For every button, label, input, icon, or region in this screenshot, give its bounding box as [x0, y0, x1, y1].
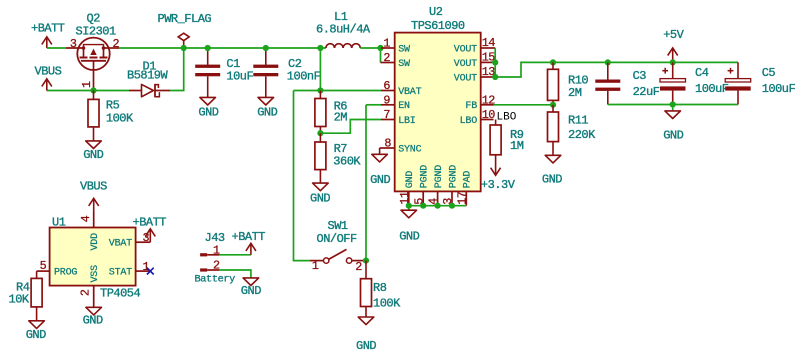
- svg-text:GND: GND: [310, 191, 330, 205]
- svg-text:+5V: +5V: [663, 28, 684, 42]
- svg-text:10uF: 10uF: [226, 70, 253, 84]
- svg-text:PGND: PGND: [434, 165, 445, 188]
- svg-text:14: 14: [482, 36, 496, 50]
- svg-text:C4: C4: [695, 66, 709, 80]
- ground below C1: [200, 97, 216, 105]
- no-connect X on STAT: [147, 268, 154, 275]
- svg-text:2M: 2M: [568, 86, 582, 100]
- junction C2 top: [263, 45, 269, 51]
- svg-text:8: 8: [384, 136, 391, 150]
- svg-text:C3: C3: [633, 69, 647, 83]
- wire +BATT to Q2 pin3: [47, 47, 66, 49]
- power flag PWR_FLAG: [158, 12, 212, 48]
- svg-text:360K: 360K: [333, 155, 361, 169]
- svg-text:PGND: PGND: [420, 165, 431, 188]
- svg-text:LBO: LBO: [460, 116, 478, 127]
- svg-text:2: 2: [355, 260, 362, 274]
- wire U2 pin14 down to pin13: [494, 48, 496, 77]
- svg-text:100K: 100K: [106, 112, 134, 126]
- ground below U2 pin11: [408, 206, 410, 211]
- capacitor C4 100uF (polarized): [660, 62, 729, 104]
- ground below R4: [29, 321, 45, 329]
- power symbol VBUS (left): [46, 79, 48, 91]
- svg-text:1: 1: [312, 259, 319, 273]
- junction L1 right / SW pins: [377, 45, 383, 51]
- ground below R7: [313, 183, 329, 191]
- svg-text:U1: U1: [52, 215, 66, 229]
- svg-text:R5: R5: [106, 98, 120, 112]
- svg-text:GND: GND: [663, 129, 683, 143]
- svg-text:FB: FB: [465, 101, 477, 112]
- svg-text:GND: GND: [370, 173, 390, 187]
- svg-text:STAT: STAT: [109, 268, 132, 279]
- junction U2 pin4: [435, 203, 441, 209]
- svg-text:C5: C5: [762, 66, 776, 80]
- U2 pin 11 GND: [408, 191, 410, 205]
- U1 pin 3 VBAT / power +BATT: [136, 241, 151, 243]
- wire drop to U2 pin2: [380, 48, 382, 63]
- U2 pin 6 VBAT: [381, 90, 395, 92]
- resistor R6 2M: [315, 91, 347, 134]
- svg-text:Q2: Q2: [87, 12, 101, 26]
- svg-text:EN: EN: [398, 101, 410, 112]
- svg-text:LBO: LBO: [497, 112, 517, 124]
- power symbol +3.3V (down): [495, 155, 497, 176]
- U2 pin 10 LBO: [481, 119, 494, 121]
- resistor R7 360K: [315, 133, 362, 183]
- svg-text:7: 7: [383, 108, 390, 122]
- ground below U2 pin8: [372, 154, 388, 162]
- svg-text:B5819W: B5819W: [127, 68, 169, 82]
- svg-text:100uF: 100uF: [762, 82, 796, 96]
- U2 pin 5 PGND: [422, 191, 424, 205]
- svg-text:ON/OFF: ON/OFF: [317, 232, 358, 246]
- power symbol +BATT (top left): [46, 37, 48, 48]
- svg-text:LBI: LBI: [398, 116, 415, 127]
- U2 pin 3 PGND: [451, 191, 453, 205]
- svg-text:9: 9: [383, 93, 390, 107]
- svg-text:R8: R8: [373, 281, 387, 295]
- svg-text:5: 5: [40, 259, 47, 273]
- svg-text:PGND: PGND: [448, 165, 459, 188]
- svg-text:17: 17: [455, 191, 469, 205]
- wire VBAT drop from top rail: [319, 48, 321, 91]
- svg-text:SW1: SW1: [328, 219, 348, 233]
- ground below R8: [358, 317, 374, 325]
- svg-text:GND: GND: [542, 173, 562, 187]
- wire VBUS rail left: [47, 90, 129, 92]
- svg-text:3: 3: [70, 37, 77, 51]
- resistor R4 10K: [9, 278, 43, 320]
- svg-text:1M: 1M: [510, 139, 524, 153]
- svg-text:GND: GND: [198, 105, 218, 119]
- U2 pin 13 VOUT: [481, 76, 496, 78]
- svg-text:+BATT: +BATT: [31, 22, 65, 36]
- svg-text:GND: GND: [399, 229, 419, 243]
- junction U2 pin15: [492, 59, 498, 65]
- capacitor C3 22uF: [595, 62, 659, 104]
- resistor R9 1M: [490, 120, 524, 155]
- U2 pin 14 VOUT: [481, 47, 496, 49]
- svg-text:3: 3: [143, 231, 150, 245]
- U2 pin 7 LBI: [381, 119, 395, 121]
- svg-text:100nF: 100nF: [287, 70, 321, 84]
- svg-text:22uF: 22uF: [633, 85, 660, 99]
- capacitor C1 10uF: [195, 48, 253, 97]
- svg-text:SW: SW: [398, 44, 410, 55]
- svg-text:GND: GND: [241, 284, 261, 298]
- wire VOUT jog to +5V rail: [495, 62, 547, 77]
- svg-text:GND: GND: [83, 313, 103, 327]
- resistor R10 2M: [548, 62, 589, 104]
- svg-text:2: 2: [113, 37, 120, 51]
- junction C3 top: [605, 59, 611, 65]
- svg-text:2: 2: [78, 289, 92, 296]
- junction U2 pin11: [406, 203, 412, 209]
- power symbol +5V: [672, 48, 674, 63]
- wire EN to switch: [365, 105, 367, 261]
- svg-text:SYNC: SYNC: [398, 144, 421, 155]
- svg-text:12: 12: [482, 93, 496, 107]
- junction R10 top: [550, 59, 556, 65]
- svg-text:TPS61090: TPS61090: [411, 19, 465, 33]
- svg-text:1: 1: [143, 260, 150, 274]
- svg-text:GND: GND: [257, 105, 277, 119]
- svg-text:6: 6: [383, 79, 390, 93]
- U2 pin 8 SYNC: [380, 147, 395, 149]
- ground below C4: [672, 105, 674, 111]
- svg-text:1: 1: [213, 243, 220, 257]
- svg-text:VOUT: VOUT: [454, 59, 477, 70]
- svg-text:10: 10: [482, 108, 496, 122]
- U1 pin 2 VSS: [93, 286, 95, 308]
- wire U2 pin8 to ground: [379, 148, 381, 154]
- svg-text:SW: SW: [398, 59, 410, 70]
- svg-text:GND: GND: [83, 148, 103, 162]
- resistor R11 220K: [548, 105, 597, 156]
- svg-text:VOUT: VOUT: [454, 44, 477, 55]
- svg-text:VBAT: VBAT: [109, 239, 132, 250]
- svg-text:10K: 10K: [9, 293, 30, 307]
- junction cap ground bus: [670, 101, 676, 107]
- inductor L1 6.8uH/4A: [316, 10, 371, 48]
- ground below U1 pin2: [86, 307, 102, 315]
- resistor R5 100K: [88, 91, 134, 141]
- wire L1 to U2 pin1: [360, 47, 380, 49]
- svg-text:VSS: VSS: [90, 265, 101, 283]
- svg-text:2M: 2M: [334, 110, 348, 124]
- junction FB divider: [550, 102, 556, 108]
- U2 pin 2 SW: [381, 62, 395, 64]
- U2 pin 1 SW: [381, 47, 395, 49]
- capacitor C2 100nF: [253, 48, 320, 97]
- diode D1 B5819W (Schottky): [127, 60, 170, 98]
- junction L1 left / VBAT drop: [317, 45, 323, 51]
- svg-text:100K: 100K: [373, 296, 401, 310]
- resistor R8 100K: [361, 261, 402, 317]
- svg-text:R11: R11: [568, 113, 588, 127]
- ground below R5: [86, 141, 102, 149]
- U2 pin 9 EN: [381, 104, 395, 106]
- U2 pin 4 PGND: [437, 191, 439, 205]
- wire +5V rail: [547, 61, 738, 63]
- power symbol +BATT (J43): [250, 243, 252, 255]
- connector J43 pin 1: [200, 243, 220, 257]
- wire VBAT to switch pin1: [294, 91, 310, 261]
- junction VBUS / R5 / Q2 gate / D1: [90, 87, 96, 93]
- svg-text:VBUS: VBUS: [35, 65, 62, 79]
- svg-text:GND: GND: [405, 171, 416, 189]
- svg-text:U2: U2: [429, 5, 443, 19]
- svg-text:Battery: Battery: [195, 273, 236, 285]
- wire J43 pin2 to ground: [219, 270, 251, 278]
- svg-text:TP4054: TP4054: [100, 286, 141, 300]
- junction R6 / R7 / LBI: [317, 130, 323, 136]
- U2 pin 17 PAD: [465, 191, 467, 205]
- capacitor C5 100uF (polarized): [725, 62, 795, 104]
- switch SW1 ON/OFF: [310, 219, 366, 274]
- wire FB to R10/R11 divider: [494, 104, 554, 106]
- svg-text:PWR_FLAG: PWR_FLAG: [158, 12, 212, 26]
- wire VBAT rail to U2 pin6: [294, 90, 382, 92]
- IC U2 TPS61090: [395, 5, 481, 191]
- wire output cap ground bus: [608, 104, 738, 106]
- svg-text:1: 1: [383, 37, 390, 51]
- svg-text:GND: GND: [26, 328, 46, 342]
- svg-text:6.8uH/4A: 6.8uH/4A: [316, 22, 371, 36]
- svg-text:2: 2: [383, 51, 390, 65]
- ground below C2: [258, 97, 274, 105]
- U1 pin 5 PROG: [37, 270, 50, 272]
- wire J43 pin1 to +BATT: [219, 254, 251, 256]
- junction U2 pin5: [420, 203, 426, 209]
- svg-text:+3.3V: +3.3V: [481, 178, 516, 192]
- svg-text:100uF: 100uF: [695, 82, 729, 96]
- junction SW1 / EN / R8: [363, 258, 369, 264]
- svg-text:2: 2: [213, 259, 220, 273]
- transistor Q2 SI2301 (P-MOSFET): [66, 12, 120, 91]
- U2 pin 12 FB: [481, 104, 494, 106]
- svg-text:1: 1: [80, 81, 94, 88]
- svg-text:PROG: PROG: [54, 268, 77, 279]
- junction U2 pin3: [449, 203, 455, 209]
- U2 pin 15 VOUT: [481, 61, 496, 63]
- ground below J43 pin2: [243, 278, 259, 286]
- svg-text:VBAT: VBAT: [398, 87, 421, 98]
- svg-text:VOUT: VOUT: [454, 73, 477, 84]
- svg-text:PAD: PAD: [463, 171, 474, 189]
- junction C1 top: [205, 45, 211, 51]
- svg-text:J43: J43: [205, 231, 225, 245]
- ground below R11: [545, 155, 561, 163]
- junction top rail / PWR_FLAG / D1: [181, 45, 187, 51]
- svg-text:+BATT: +BATT: [133, 215, 167, 229]
- svg-text:11: 11: [398, 191, 412, 205]
- wire D1 cathode up to top rail: [170, 48, 184, 91]
- svg-text:+BATT: +BATT: [232, 230, 266, 244]
- svg-text:220K: 220K: [568, 128, 596, 142]
- U1 pin 1 STAT: [136, 270, 151, 272]
- junction C4 top / +5V: [670, 59, 676, 65]
- junction VBAT / R6: [317, 87, 323, 93]
- wire Q2 pin2 to L1 (top rail): [119, 47, 326, 49]
- wire R6-R7 junction to U2 pin7 LBI: [320, 120, 381, 134]
- svg-text:VDD: VDD: [90, 233, 101, 251]
- connector J43 pin 2: [200, 259, 220, 273]
- IC U1 TP4054: [50, 215, 141, 300]
- svg-text:GND: GND: [356, 339, 376, 353]
- U1 pin 4 VDD / power VBUS: [93, 212, 95, 228]
- junction U2 pin13: [492, 74, 498, 80]
- svg-text:4: 4: [79, 215, 93, 222]
- svg-text:VBUS: VBUS: [80, 180, 107, 194]
- wire U2 bottom ground bus: [409, 205, 467, 207]
- svg-text:SI2301: SI2301: [76, 25, 117, 39]
